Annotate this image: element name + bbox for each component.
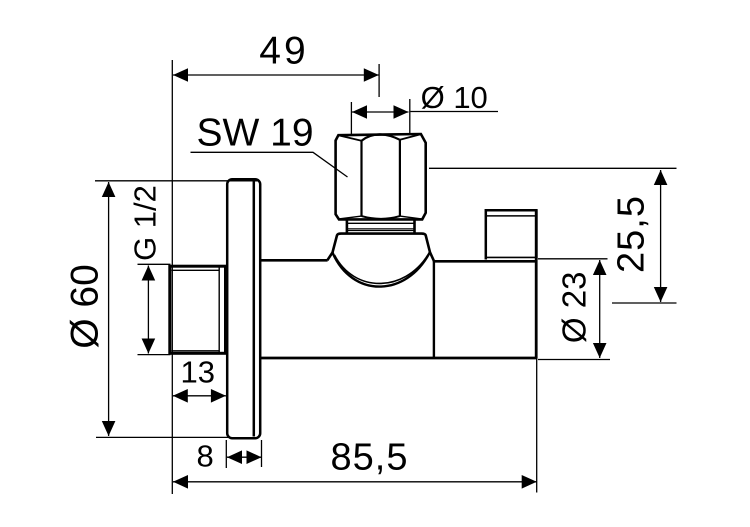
svg-text:85,5: 85,5 bbox=[331, 437, 409, 479]
svg-text:G 1/2: G 1/2 bbox=[128, 185, 163, 261]
svg-text:49: 49 bbox=[259, 30, 308, 73]
svg-text:Ø 23: Ø 23 bbox=[556, 272, 593, 344]
svg-text:13: 13 bbox=[181, 354, 215, 389]
svg-text:SW 19: SW 19 bbox=[197, 112, 314, 155]
svg-text:8: 8 bbox=[196, 438, 213, 473]
svg-text:Ø 60: Ø 60 bbox=[64, 264, 107, 349]
svg-text:Ø 10: Ø 10 bbox=[421, 80, 488, 115]
svg-text:25,5: 25,5 bbox=[611, 195, 653, 273]
